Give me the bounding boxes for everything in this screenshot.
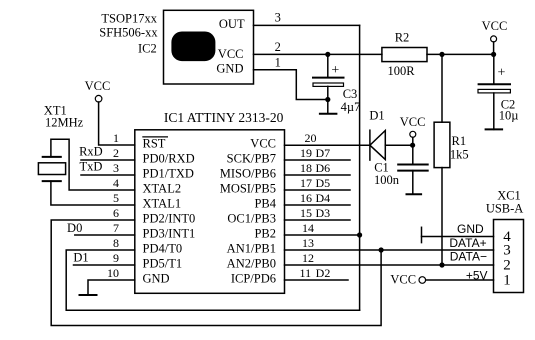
svg-text:GND: GND <box>457 222 484 236</box>
svg-text:3: 3 <box>275 11 281 25</box>
capacitor C3 top plate <box>313 77 344 79</box>
resistor R1 body <box>434 122 450 167</box>
capacitor C3 top lead <box>327 54 329 77</box>
svg-text:6: 6 <box>113 206 119 220</box>
capacitor C3 bottom plate <box>313 83 344 86</box>
wire IC1 pin8 T0 to inner bottom bus up to node A <box>66 250 359 310</box>
crystal XT1 top plate <box>43 156 61 158</box>
svg-text:17: 17 <box>300 176 312 190</box>
ground under IC1 pin10 <box>80 294 97 296</box>
svg-text:AN1/PB1: AN1/PB1 <box>227 242 276 256</box>
lead VCC terminal to D1 node <box>412 137 414 145</box>
wire D1 anode to VCC node <box>385 144 412 146</box>
capacitor C1 bottom plate <box>398 170 428 172</box>
wire OUT vertical bus down to node A and bottom bus <box>359 25 361 310</box>
svg-text:+: + <box>331 63 339 78</box>
svg-text:TxD: TxD <box>79 160 102 174</box>
IC1 right stub pin19 D7 <box>285 159 351 161</box>
capacitor C1 top plate <box>398 164 428 166</box>
wire VCC terminal to rail <box>493 42 495 54</box>
svg-text:AN2/PB0: AN2/PB0 <box>227 257 276 271</box>
capacitor C2 bottom lead <box>493 93 495 129</box>
IC1 right stub pin16 D4 <box>285 204 351 206</box>
resistor R2 body <box>382 48 427 62</box>
wire D0 stub to IC1 pin7 <box>75 234 135 236</box>
svg-text:D4: D4 <box>315 191 330 205</box>
wire R2 to VCC node <box>427 53 494 55</box>
node A pin14/OUT junction <box>357 232 362 237</box>
VCC terminal above D1 node <box>410 131 416 137</box>
svg-text:1: 1 <box>275 55 281 69</box>
IC2 lens blob <box>171 32 215 62</box>
IC1 right stub pin17 D5 <box>285 189 351 191</box>
svg-text:VCC: VCC <box>85 79 111 93</box>
svg-text:SCK/PB7: SCK/PB7 <box>227 152 276 166</box>
wire RxD stub to IC1 pin2 <box>81 159 135 161</box>
crystal XT1 bottom plate <box>43 180 61 182</box>
wire IC2 pin3 OUT to vertical bus <box>254 24 360 26</box>
wire IC2 pin2 VCC to R2 <box>254 53 382 55</box>
node C3 bottom junction <box>325 97 330 102</box>
ground under C2 <box>486 128 503 130</box>
wire IC1 pin12 AN2/PB0 to USB DATA- <box>285 264 494 266</box>
capacitor C1 top lead <box>412 145 414 164</box>
svg-text:SFH506-xx: SFH506-xx <box>99 26 158 40</box>
svg-text:GND: GND <box>143 272 170 286</box>
capacitor C1 bottom lead <box>412 171 414 195</box>
resistor R1 top lead <box>441 54 443 122</box>
capacitor C2 bottom plate <box>478 89 510 93</box>
svg-text:1: 1 <box>113 131 119 145</box>
IC1 right stub pin15 D3 <box>285 219 351 221</box>
svg-text:PB4: PB4 <box>254 197 276 211</box>
svg-text:IC2: IC2 <box>138 42 157 56</box>
svg-text:13: 13 <box>302 236 314 250</box>
wire IC1 pin10 GND to ground <box>88 280 135 295</box>
svg-text:OUT: OUT <box>219 17 245 31</box>
svg-text:PD2/INT0: PD2/INT0 <box>143 212 196 226</box>
IC1 left pin names <box>143 137 196 286</box>
svg-text:XC1: XC1 <box>497 189 521 203</box>
svg-text:D0: D0 <box>67 221 82 235</box>
ground under C1 <box>407 193 422 195</box>
svg-text:PD3/INT1: PD3/INT1 <box>143 227 196 241</box>
IR receiver IC2 body <box>164 10 254 84</box>
svg-text:IC1 ATTINY 2313-20: IC1 ATTINY 2313-20 <box>164 110 284 125</box>
wire D1 stub to IC1 pin9 <box>74 264 135 266</box>
svg-text:D1: D1 <box>73 251 88 265</box>
svg-text:MISO/PB6: MISO/PB6 <box>220 167 276 181</box>
svg-text:DATA−: DATA− <box>450 250 487 264</box>
svg-text:11: 11 <box>300 266 312 280</box>
svg-text:+5V: +5V <box>466 268 488 282</box>
wire IC1 pin6 INT0 to bottom bus and DATA+ riser <box>51 220 381 326</box>
svg-text:GND: GND <box>216 62 243 76</box>
svg-text:OC1/PB3: OC1/PB3 <box>227 212 276 226</box>
wire IC2 pin1 GND down to C3 minus node <box>254 70 328 100</box>
crystal XT1 body <box>38 163 65 175</box>
svg-text:VCC: VCC <box>390 272 416 286</box>
svg-text:D7: D7 <box>315 146 330 160</box>
svg-text:2: 2 <box>275 40 281 54</box>
overline of RST <box>143 136 168 138</box>
crystal XT1 top lead route to IC1 pin4 XTAL2 <box>51 139 135 190</box>
USB GND open terminator bar <box>421 227 423 242</box>
capacitor C2 top plate <box>479 83 510 85</box>
node R1 top junction <box>439 52 444 57</box>
svg-text:ICP/PD6: ICP/PD6 <box>231 272 276 286</box>
svg-text:15: 15 <box>300 206 312 220</box>
wire VCC terminal to USB pin1 +5V <box>426 279 494 281</box>
USB net labels sans-serif <box>449 222 487 282</box>
svg-text:10: 10 <box>107 266 119 280</box>
svg-text:2: 2 <box>503 257 511 273</box>
svg-text:D6: D6 <box>315 161 330 175</box>
svg-text:4µ7: 4µ7 <box>341 100 361 114</box>
svg-text:VCC: VCC <box>218 47 244 61</box>
svg-text:19: 19 <box>300 146 312 160</box>
svg-text:+: + <box>498 66 506 81</box>
wire IC1 pin14 PB2 to node A <box>285 234 360 236</box>
node C3 top junction <box>325 52 330 57</box>
IC1 right pin names <box>220 137 277 286</box>
svg-text:PD0/RXD: PD0/RXD <box>143 152 195 166</box>
svg-text:16: 16 <box>300 191 312 205</box>
svg-text:R1: R1 <box>452 134 467 148</box>
svg-text:18: 18 <box>300 161 312 175</box>
svg-text:PD4/T0: PD4/T0 <box>143 242 183 256</box>
svg-text:TSOP17xx: TSOP17xx <box>101 12 157 26</box>
VCC terminal left <box>95 95 102 102</box>
capacitor C2 top lead <box>493 54 495 84</box>
svg-text:100n: 100n <box>374 173 400 187</box>
capacitor C3 bottom lead <box>327 86 329 113</box>
svg-text:5: 5 <box>113 191 119 205</box>
svg-text:R2: R2 <box>395 31 410 45</box>
svg-text:D5: D5 <box>315 176 330 190</box>
svg-text:7: 7 <box>113 221 119 235</box>
crystal XT1 bottom lead route to IC1 pin5 XTAL1 <box>51 181 135 205</box>
node VCC/C2 junction <box>491 52 496 57</box>
USB connector XC1 body <box>494 220 524 293</box>
svg-text:VCC: VCC <box>400 115 426 129</box>
IC1 ATtiny2313 body <box>135 130 285 293</box>
svg-text:1k5: 1k5 <box>450 147 469 161</box>
wire IC1 pin13 AN1/PB1 to USB DATA+ <box>285 249 494 251</box>
svg-text:12MHz: 12MHz <box>45 116 84 130</box>
VCC terminal at +5V <box>419 277 426 284</box>
wire VCC terminal to IC1 pin1 <box>99 102 135 145</box>
svg-text:3: 3 <box>503 242 511 258</box>
svg-text:MOSI/PB5: MOSI/PB5 <box>220 182 276 196</box>
svg-text:XTAL2: XTAL2 <box>143 182 182 196</box>
svg-text:3: 3 <box>113 161 119 175</box>
svg-text:D1: D1 <box>369 109 384 123</box>
diode D1 cathode bar <box>369 130 371 160</box>
svg-text:1: 1 <box>503 272 511 288</box>
node R1/DATA- junction <box>439 262 444 267</box>
node B pin13/DATA+ junction <box>379 247 384 252</box>
wire IC1 pin20 VCC to diode D1 cathode <box>285 144 370 146</box>
VCC terminal top right <box>491 36 497 42</box>
svg-text:XTAL1: XTAL1 <box>143 197 182 211</box>
wire TxD stub to IC1 pin3 <box>81 174 135 176</box>
svg-text:PD1/TXD: PD1/TXD <box>143 167 194 181</box>
svg-text:VCC: VCC <box>482 19 508 33</box>
IC1 right stub pin11 D2 <box>285 279 349 281</box>
svg-text:100R: 100R <box>387 64 415 78</box>
node D1 anode VCC junction <box>410 143 415 148</box>
svg-text:RxD: RxD <box>79 145 103 159</box>
wire GND terminator to USB pin4 <box>422 236 494 238</box>
svg-text:DATA+: DATA+ <box>449 236 486 250</box>
diode D1 triangle <box>370 131 385 160</box>
svg-text:8: 8 <box>113 236 119 250</box>
svg-text:PB2: PB2 <box>254 227 276 241</box>
svg-text:RST: RST <box>143 137 166 151</box>
IC1 left pin numbers <box>107 131 119 280</box>
USB pin numbers <box>503 229 511 288</box>
svg-text:9: 9 <box>113 251 119 265</box>
svg-text:PD5/T1: PD5/T1 <box>143 257 183 271</box>
svg-text:VCC: VCC <box>250 137 276 151</box>
svg-text:14: 14 <box>302 221 314 235</box>
svg-text:D3: D3 <box>315 206 330 220</box>
svg-text:USB-A: USB-A <box>486 202 524 216</box>
net labels D7-D2 <box>315 146 330 280</box>
IC1 right pin numbers <box>300 131 317 280</box>
svg-text:2: 2 <box>113 146 119 160</box>
IC1 right stub pin18 D6 <box>285 174 351 176</box>
svg-text:C3: C3 <box>343 87 358 101</box>
svg-text:D2: D2 <box>316 266 331 280</box>
svg-text:10µ: 10µ <box>499 109 519 123</box>
svg-text:20: 20 <box>305 131 317 145</box>
svg-text:4: 4 <box>113 176 119 190</box>
resistor R1 bottom lead to DATA- node <box>441 168 443 265</box>
svg-text:12: 12 <box>302 251 314 265</box>
ground under C3 <box>320 113 337 115</box>
